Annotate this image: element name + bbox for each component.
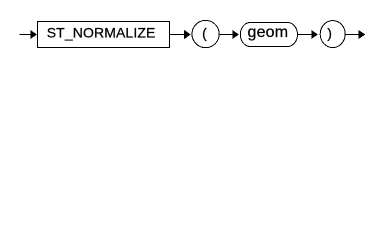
svg-text:): ): [327, 25, 332, 41]
svg-text:(: (: [202, 25, 207, 41]
svg-text:geom: geom: [247, 24, 288, 41]
svg-text:ST_NORMALIZE: ST_NORMALIZE: [47, 24, 156, 40]
